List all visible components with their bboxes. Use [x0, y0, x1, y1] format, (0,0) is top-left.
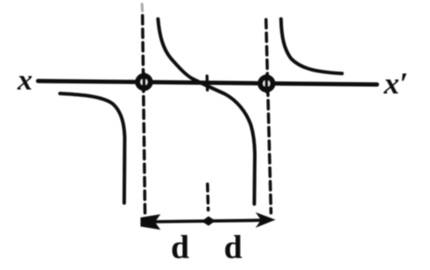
- double arrow line: [148, 220, 268, 222]
- faint top dash of left asymptote: [141, 4, 144, 11]
- svg-text:d: d: [171, 230, 189, 266]
- middle diamond marker: [202, 216, 216, 226]
- left arrowhead: [141, 214, 161, 230]
- svg-text:d: d: [224, 230, 242, 266]
- left curve branch: [60, 94, 125, 204]
- right arrowhead: [256, 212, 276, 227]
- left dashed asymptote: [143, 16, 146, 215]
- right dashed asymptote: [266, 20, 271, 214]
- midpoint tick on axis: [206, 76, 209, 90]
- circled point P2: [260, 77, 272, 89]
- vertical bar in P2: [265, 76, 268, 92]
- right curve branch: [281, 19, 342, 74]
- midpoint dashed segment: [206, 184, 210, 210]
- middle curve branch: [158, 19, 255, 204]
- svg-text:x: x: [17, 64, 33, 97]
- x axis line: [38, 81, 377, 85]
- circled point P1: [138, 76, 150, 88]
- svg-text:x′: x′: [383, 66, 408, 101]
- vertical bar in P1: [142, 74, 145, 90]
